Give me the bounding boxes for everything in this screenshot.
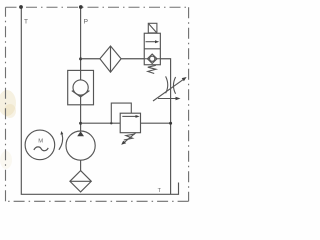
throttle valve FC1 (variable restrictor arcs) [166,76,176,93]
wire: pump suction [80,160,82,170]
wire: tank return T line (left vertical + bottom run + right hook) [21,7,178,194]
suction strainer F2 [70,171,91,192]
relief valve RV1 adjustable spring [121,133,136,145]
solenoid valve U1 arrow (open position) [146,40,160,43]
pilot line of relief valve [111,103,131,123]
wire: pressure P line (vertical from port to pump) [80,7,82,131]
flow direction arrow (outlet) [158,97,181,100]
node: junction relief outlet / tank downline [169,122,172,125]
label M inside motor [38,138,43,144]
pump P1 (fixed displacement) [66,131,95,160]
enclosure boundary (power unit, chain line) [6,7,189,201]
shaft rotation arrow [59,131,63,150]
node: junction P to filter branch [79,57,82,60]
node: port T [19,5,23,9]
label P (top port) [84,18,88,25]
svg-text:T: T [24,18,28,25]
solenoid valve U1 (2/2 directional valve body) [144,33,160,65]
wire: relief valve outlet to tank downline [141,122,171,124]
svg-text:P: P [84,18,88,25]
wire: solenoid valve to throttle downline [160,59,170,195]
node: port P [79,5,83,9]
label T (bottom tank) [158,188,162,194]
motor M1 (electric motor) [25,130,55,160]
paper stain smudge left [0,90,16,169]
node: pilot tapping [110,122,112,124]
throttle FC1 adjustment arrow [153,77,187,101]
filter F1 (pressure filter diamond) [100,46,121,72]
wire: branch to relief valve [81,122,121,124]
svg-text:M: M [38,138,43,144]
pump P1 outlet triangle [77,131,84,136]
solenoid valve U1 check position (ball in seat) [144,54,160,63]
relief valve RV1 arrow [122,115,139,118]
check valve V1 [68,70,94,104]
label T (top port) [24,18,28,25]
AC tilde inside motor [34,147,48,151]
relief valve RV1 body [120,113,140,133]
solenoid actuator S1 [148,23,157,33]
spring return of U1 [148,65,156,73]
node: junction pump outlet / relief branch [79,122,82,125]
wire: branch P to filter [81,58,100,60]
wire: filter to solenoid valve [121,58,144,60]
